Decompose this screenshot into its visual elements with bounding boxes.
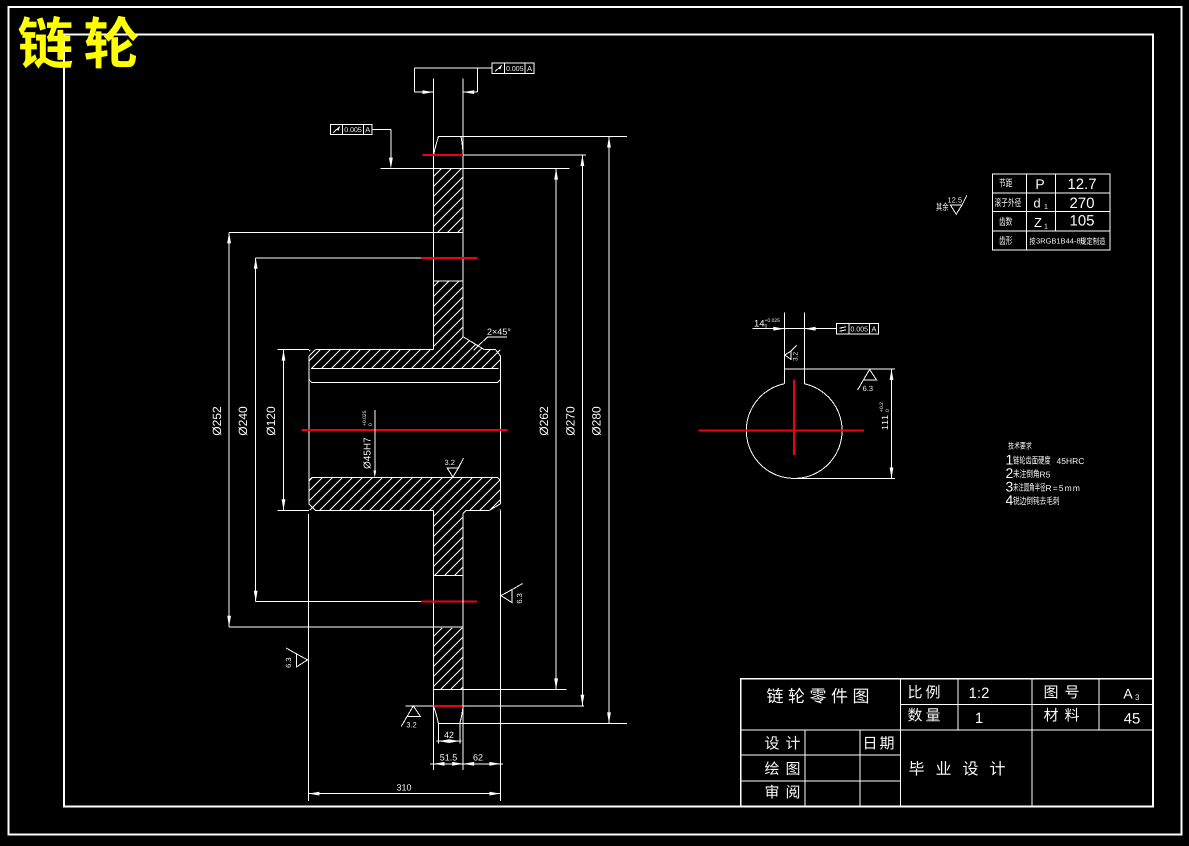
label 图号 [1045, 685, 1079, 698]
rim root line bottom (D262 ext) [434, 688, 567, 690]
label 数量 [908, 708, 940, 722]
roughness 6.3 on left ext line [297, 654, 308, 667]
dimension D280 [608, 137, 610, 724]
dimension D252 [228, 232, 230, 626]
dimension D262 [555, 169, 557, 690]
dimension D240 [255, 258, 257, 602]
label 绘图 [765, 761, 799, 775]
value 1 [976, 713, 982, 723]
param row1 [999, 178, 1012, 187]
label 设计 [765, 736, 800, 750]
dim 14 arrow right [805, 327, 816, 331]
rim right vertical upper [462, 79, 464, 337]
rim root line top (D262 ext) [380, 168, 569, 170]
dimension D270 ext bottom [406, 705, 434, 707]
bore end chamfer right [498, 380, 501, 383]
parameter table grid [992, 174, 1110, 250]
label 材料 [1044, 708, 1079, 722]
red centerline horizontal (right view) [699, 430, 865, 432]
rim line y627 [229, 626, 463, 628]
param row4 [999, 236, 1012, 245]
red line y601 [421, 601, 477, 603]
title block grid lower [804, 730, 806, 806]
rim line y281 [434, 280, 464, 282]
dim 62 [463, 762, 474, 766]
bore end chamfer left top [309, 380, 312, 383]
roughness 6.3 keyway top ext [863, 370, 876, 381]
dimension D240 ext bottom [256, 601, 421, 603]
hub outline with chamfers [316, 349, 434, 351]
tech notes title [1008, 442, 1031, 450]
red centerline vertical (right view) [793, 380, 795, 456]
keyway side lines [783, 313, 785, 384]
bore leader line [374, 410, 376, 474]
dim 51.5 [430, 763, 503, 765]
general roughness 12.5 [951, 205, 962, 214]
dimension D280 ext top [461, 136, 627, 138]
project 毕业设计 [909, 761, 1005, 776]
rim-hub chamfer 2x45 [463, 337, 484, 350]
rim line y575 [434, 575, 464, 577]
bore top line [312, 382, 498, 384]
label 审阅 [766, 785, 799, 799]
part name 链轮零件图 [767, 688, 868, 704]
dim 42 ext lines [437, 723, 439, 743]
keyway bottom line in section [311, 368, 499, 370]
dimension D270 ext top [463, 154, 586, 156]
param row3 [999, 217, 1012, 226]
dim 111 [891, 369, 893, 479]
keyway top edge + ext [784, 368, 895, 370]
runout measure bracket [414, 67, 492, 69]
rim line y232 [229, 231, 463, 233]
red line y257 [421, 257, 478, 259]
title block grid upper [900, 679, 902, 730]
value A3 [1123, 689, 1132, 699]
red pitch line bottom tooth [434, 705, 464, 707]
red pitch line top tooth [422, 154, 463, 156]
top tooth profile [434, 137, 464, 156]
label 比例 [909, 685, 940, 699]
circle bottom ext line [797, 478, 894, 480]
bore label D45H7 [363, 438, 370, 469]
roughness 6.3 on right ext line [501, 590, 512, 603]
value 1:2 [970, 688, 989, 698]
title block outer [741, 679, 1153, 807]
dim 14 text [755, 320, 765, 327]
tech note 3 [1006, 482, 1013, 492]
dimension D240 ext top [256, 257, 421, 259]
dim 42 [437, 740, 462, 742]
dim 310 [308, 793, 500, 795]
label 日期 [865, 736, 893, 750]
dimension D280 ext bottom [460, 722, 627, 724]
roughness 3.2 hub face [447, 468, 458, 477]
rim right vertical lower [462, 514, 464, 706]
dim 51.5 62 ext lines [433, 706, 435, 770]
bottom tooth profile [434, 706, 464, 724]
chamfer callout 2x45 [474, 337, 488, 350]
rim left vertical upper [433, 79, 435, 350]
dimension D270 [581, 155, 583, 706]
feature control frame runout (top) [492, 63, 534, 73]
param row2 [995, 198, 1021, 207]
tech note 2 [1006, 468, 1012, 478]
dimension D120 ext top [278, 349, 310, 351]
title 链轮 (sprocket) [19, 16, 139, 69]
rim left vertical lower [433, 510, 435, 706]
roughness 3.2 bottom tooth [407, 706, 420, 717]
tech note 1 [1007, 455, 1013, 465]
dimension D120 ext bottom [278, 509, 310, 511]
tech note 4 [1006, 495, 1013, 505]
dim 14 line [753, 328, 837, 330]
roughness 3.2 keyway side [785, 351, 791, 359]
feature control frame parallelism [837, 324, 879, 334]
bore circle with keyway opening [746, 384, 842, 479]
dim 310 ext lines [307, 514, 309, 801]
feature control frame runout (left) [330, 124, 372, 134]
bore bottom line [312, 477, 498, 479]
value 45 [1124, 713, 1140, 723]
dimension D120 [283, 350, 285, 511]
red bore centerline [302, 429, 508, 431]
